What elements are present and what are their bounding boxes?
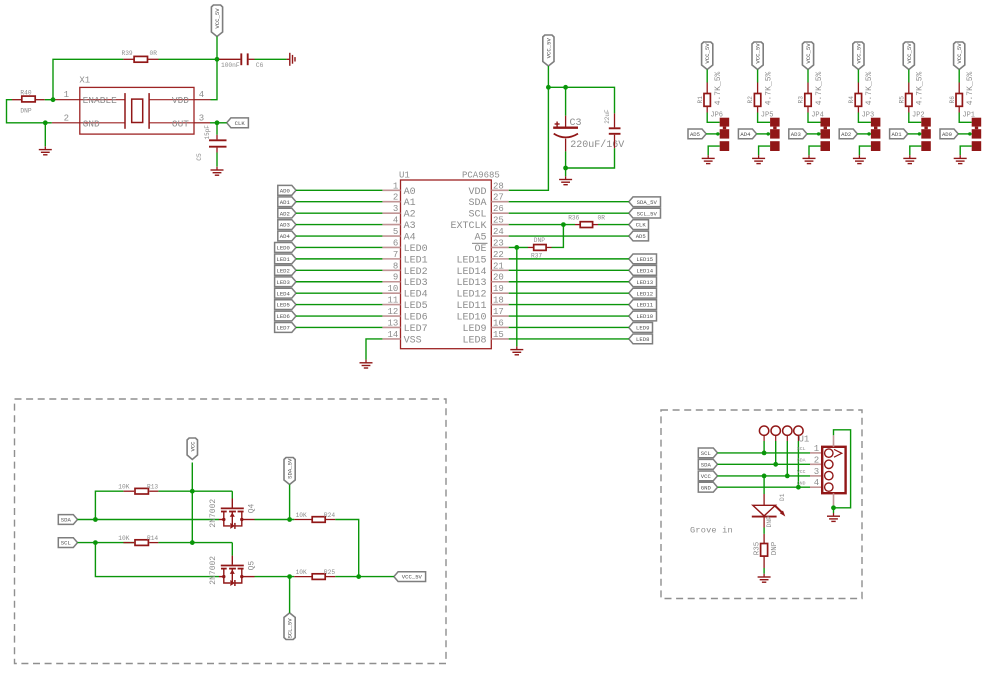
junction K VCC_5V	[356, 574, 361, 579]
wire U1 pin 15 to LED8	[509, 338, 629, 340]
ground (OE pulldown)	[516, 346, 518, 349]
svg-text:LED9: LED9	[462, 324, 486, 335]
wire GND to connector pin 4	[718, 486, 811, 488]
svg-text:R6: R6	[949, 96, 956, 104]
label flag AD1 (U1 left)	[278, 197, 296, 207]
junction (GND grove)	[796, 485, 801, 490]
connector U1 grove ring pad3	[783, 426, 792, 435]
pin 4 U1 (A3)	[382, 224, 400, 226]
svg-text:SCL_5V: SCL_5V	[637, 210, 658, 217]
svg-text:LED4: LED4	[276, 290, 290, 297]
label flag LED0 (U1 left)	[275, 243, 296, 253]
connector U1 grove ring pad4	[794, 426, 803, 435]
wire junction D to ground	[44, 123, 46, 147]
junction (grove shield gnd)	[831, 505, 836, 510]
wire AD3 to U1 pin 4	[296, 224, 382, 226]
svg-text:4: 4	[199, 90, 204, 100]
svg-text:LED2: LED2	[276, 267, 289, 274]
connector grove contact 2	[825, 460, 833, 468]
wire R6 to jumper JP1	[959, 113, 972, 123]
svg-text:A3: A3	[404, 221, 416, 232]
label flag SCL_5V (U1)	[629, 208, 661, 218]
label flag LED8 (U1 right)	[629, 334, 653, 344]
wire VCC_5V to R5	[908, 70, 910, 83]
junction B X1 enable	[51, 97, 56, 102]
resistor R25 10K	[294, 576, 312, 578]
svg-text:DNP: DNP	[766, 516, 773, 527]
junction A VCC_5V	[215, 57, 220, 62]
svg-text:LED12: LED12	[636, 290, 653, 297]
svg-text:C6: C6	[256, 62, 264, 69]
pin 4 grove connector	[810, 486, 822, 488]
label flag AD3 (U1 left)	[278, 220, 296, 230]
pin 15 U1 (LED8)	[491, 338, 508, 340]
wire R13 left down to SDA	[95, 491, 123, 519]
pin 1 X1	[52, 99, 80, 101]
label flag LED4 (U1 left)	[275, 288, 296, 298]
label flag AD5 (jumper)	[688, 129, 706, 139]
wire JP5 to ground	[759, 146, 771, 155]
svg-text:LED10: LED10	[456, 313, 486, 324]
pin 11 U1 (LED5)	[382, 304, 400, 306]
svg-text:R25: R25	[324, 569, 335, 576]
svg-text:U1: U1	[399, 171, 410, 181]
pin 6 U1 (LED0)	[382, 246, 400, 248]
label flag CLK (U1)	[629, 220, 649, 230]
pin 2 grove connector	[810, 463, 822, 465]
svg-text:R5: R5	[898, 96, 905, 104]
wire VCC_5V to R4	[857, 70, 859, 83]
svg-text:1: 1	[393, 181, 398, 191]
ground (right of C6)	[287, 58, 290, 60]
resistor R24 10K	[294, 519, 312, 521]
junction 3 (C3 bottom)	[563, 166, 568, 171]
connector U1 grove ring pad2	[771, 426, 780, 435]
junction (SDA grove)	[773, 462, 778, 467]
svg-text:R40: R40	[20, 90, 31, 97]
wire ring pad1 down	[763, 435, 765, 441]
wire U1 SCL to SCL_5V	[509, 212, 629, 214]
pin 17 U1 (LED10)	[491, 315, 508, 317]
wire AD3 to JP4	[807, 133, 821, 135]
svg-text:A0: A0	[404, 187, 416, 198]
svg-text:8: 8	[393, 261, 398, 271]
pin 26 U1 (SCL)	[491, 212, 508, 214]
label flag SCL	[58, 538, 77, 548]
svg-text:X1: X1	[79, 76, 90, 86]
svg-text:12: 12	[387, 307, 398, 317]
wire AD0 to U1 pin 1	[296, 189, 382, 191]
connector grove polarity mark	[834, 449, 842, 457]
ground (below R40)	[44, 146, 46, 149]
wire junction H to Q5 gate	[192, 542, 232, 544]
resistor R2 4.7K_5%	[757, 83, 759, 94]
svg-text:0R: 0R	[150, 50, 158, 57]
svg-text:VCC: VCC	[189, 441, 196, 452]
svg-text:LED8: LED8	[462, 335, 486, 346]
label flag LED2 (U1 left)	[275, 265, 296, 275]
ground (JP2)	[909, 155, 911, 158]
svg-text:28: 28	[493, 181, 504, 191]
svg-text:C5: C5	[196, 153, 203, 161]
pin 2 X1	[52, 122, 80, 124]
junction C CLK net	[215, 120, 220, 125]
svg-text:10K: 10K	[296, 569, 307, 576]
supply SCL_5V (shifter, pointing up)	[284, 613, 295, 640]
wire JP2 to ground	[910, 146, 922, 155]
svg-text:LED4: LED4	[404, 290, 428, 301]
svg-text:AD1: AD1	[280, 199, 291, 206]
junction G VCC	[190, 489, 195, 494]
svg-text:AD0: AD0	[280, 187, 291, 194]
svg-text:9: 9	[393, 273, 398, 283]
svg-text:R35: R35	[754, 541, 762, 555]
junction F OE	[514, 245, 519, 250]
svg-text:LED14: LED14	[456, 267, 486, 278]
wire ring pad4 down	[797, 435, 799, 441]
supply VCC_5V (oscillator)	[211, 5, 222, 37]
wire C3 to junction 3	[565, 151, 567, 168]
wire R25 to junction K	[335, 576, 358, 578]
junction 1 VCC_5V	[546, 85, 551, 90]
wire SCL to connector pin 1	[718, 452, 811, 454]
wire AD1 to JP2	[908, 133, 922, 135]
svg-text:LED13: LED13	[636, 279, 653, 286]
resistor R37 DNP	[517, 246, 528, 248]
svg-text:DNP: DNP	[771, 541, 779, 555]
svg-text:A1: A1	[404, 198, 416, 209]
pin mount grove (top)	[833, 435, 835, 447]
label flag AD0 (jumper)	[940, 129, 958, 139]
svg-text:VCC_5V: VCC_5V	[906, 43, 913, 64]
label flag LED1 (U1 left)	[275, 254, 296, 264]
svg-text:2N7002: 2N7002	[209, 556, 218, 585]
wire U1 OE to junction F	[509, 246, 517, 248]
wire VCC to connector pin 3	[718, 475, 811, 477]
ground (below C3)	[565, 176, 567, 179]
pin 23 U1 (OE)	[491, 246, 508, 248]
resistor R6 4.7K_5%	[958, 83, 960, 94]
svg-text:CLK: CLK	[235, 120, 246, 127]
label flag CLK (at X1)	[227, 118, 249, 128]
svg-text:C3: C3	[570, 118, 582, 129]
ground (below C5)	[216, 167, 218, 170]
wire AD4 to JP5	[757, 133, 771, 135]
wire shield to ground	[833, 508, 835, 513]
svg-text:R36: R36	[568, 215, 579, 222]
pin 16 U1 (LED9)	[491, 326, 508, 328]
wire SDA_5V down to junction J	[289, 485, 291, 520]
wire VCC trunk to junction H	[191, 491, 193, 542]
ground (U1 VSS)	[365, 360, 367, 363]
svg-text:VCC: VCC	[797, 469, 806, 475]
label flag LED13 (U1 right)	[629, 277, 657, 287]
transistor Q5 2N7002	[231, 543, 233, 556]
svg-text:PCA9685: PCA9685	[462, 171, 500, 181]
wire AD2 to U1 pin 3	[296, 212, 382, 214]
wire LED3 to U1 pin 9	[296, 281, 382, 283]
svg-text:LED15: LED15	[456, 255, 486, 266]
wire R4 to jumper JP3	[858, 113, 871, 123]
ground (JP5)	[758, 155, 760, 158]
transistor Q4 2N7002	[231, 491, 233, 498]
label flag LED5 (U1 left)	[275, 300, 296, 310]
connector grove contact 4	[825, 483, 833, 491]
svg-text:SDA: SDA	[468, 198, 486, 209]
wire junction D to X1 pin2	[45, 122, 52, 124]
wire VCC_5V to R2	[757, 70, 759, 83]
svg-text:AD4: AD4	[740, 131, 751, 138]
svg-text:A4: A4	[404, 233, 416, 244]
svg-text:AD1: AD1	[892, 131, 903, 138]
svg-text:AD0: AD0	[942, 131, 953, 138]
svg-text:D1: D1	[779, 493, 786, 501]
svg-text:R13: R13	[147, 484, 158, 491]
junction (SCL grove)	[762, 451, 767, 456]
svg-text:A2: A2	[404, 210, 416, 221]
svg-text:3: 3	[199, 113, 204, 123]
svg-text:SDA: SDA	[701, 461, 712, 468]
svg-text:CLK: CLK	[636, 222, 647, 229]
wire JP6 to ground	[708, 146, 720, 155]
svg-text:4.7K_5%: 4.7K_5%	[966, 72, 975, 106]
pin 3 X1	[194, 122, 210, 124]
wire junction2 down to C3	[565, 87, 567, 115]
wire R1 to jumper JP6	[707, 113, 720, 123]
svg-text:SCL: SCL	[797, 446, 806, 452]
wire VCC_5V trunk down to U1 VDD	[509, 87, 549, 190]
svg-text:R1: R1	[697, 96, 704, 104]
wire VCC_5V to R3	[807, 70, 809, 83]
svg-text:LED14: LED14	[636, 267, 653, 274]
wire R40 left around to GND row	[7, 100, 46, 123]
dashed frame (Grove in)	[661, 410, 862, 599]
svg-text:6: 6	[393, 238, 398, 248]
svg-text:4: 4	[393, 216, 398, 226]
wire R36 to CLK flag	[598, 224, 629, 226]
wire VCC_5V to R1	[706, 70, 708, 83]
wire VCC_5V to R6	[958, 70, 960, 83]
label flag LED6 (U1 left)	[275, 311, 296, 321]
label flag AD2 (jumper)	[839, 129, 857, 139]
pin 1 grove connector	[810, 452, 822, 454]
svg-text:SDA: SDA	[797, 458, 806, 464]
junction (AD5 at JP6)	[716, 132, 719, 135]
svg-text:1: 1	[64, 90, 69, 100]
svg-text:AD2: AD2	[841, 131, 851, 138]
resistor R40 DNP	[35, 99, 45, 101]
svg-text:10K: 10K	[296, 512, 307, 519]
wire JP4 to ground	[809, 146, 821, 155]
svg-text:ENABLE: ENABLE	[83, 95, 118, 106]
pin 27 U1 (SDA)	[491, 201, 508, 203]
wire R14 right to junction H	[158, 542, 192, 544]
svg-text:14: 14	[387, 330, 398, 340]
wire U1 pin 19 to LED12	[509, 292, 629, 294]
supply VCC (shifter)	[187, 438, 197, 460]
wire junction K to VCC_5V flag	[359, 576, 394, 578]
wire R35 to ground	[763, 568, 765, 574]
svg-text:VCC_5V: VCC_5V	[855, 43, 862, 64]
svg-text:GND: GND	[83, 118, 100, 129]
connector grove contact 1	[825, 449, 833, 457]
svg-text:GND: GND	[797, 480, 806, 486]
svg-text:10K: 10K	[118, 535, 129, 542]
label flag AD2 (U1 left)	[278, 208, 296, 218]
pin 8 U1 (LED2)	[382, 269, 400, 271]
svg-text:AD5: AD5	[690, 131, 700, 138]
svg-text:GND: GND	[701, 484, 712, 491]
junction (D1 tap on VCC row)	[762, 474, 767, 479]
wire junction 3 to ground	[565, 168, 567, 176]
wire U1 VSS to ground	[366, 339, 382, 360]
svg-text:VCC_5V: VCC_5V	[545, 38, 552, 59]
svg-text:22uF: 22uF	[604, 109, 611, 124]
junction (AD4 at JP5)	[767, 132, 770, 135]
pin 21 U1 (LED14)	[491, 269, 508, 271]
resistor R4 4.7K_5%	[857, 83, 859, 94]
capacitor C22u 22uF	[614, 113, 616, 127]
svg-text:VCC_5V: VCC_5V	[214, 8, 221, 29]
ground (JP6)	[707, 155, 709, 158]
ground (grove shield)	[833, 513, 835, 516]
pin 9 U1 (LED3)	[382, 281, 400, 283]
label flag AD1 (jumper)	[890, 129, 908, 139]
label flag SDA (grove)	[698, 459, 717, 469]
resistor R1 4.7K_5%	[706, 83, 708, 94]
svg-text:LED1: LED1	[276, 256, 290, 263]
label flag AD4 (jumper)	[738, 129, 756, 139]
svg-text:LED8: LED8	[636, 336, 649, 343]
pin 3 grove connector	[810, 475, 822, 477]
label flag LED9 (U1 right)	[629, 323, 653, 333]
capacitor C3 220uF/16V (polarized)	[565, 116, 567, 127]
svg-text:7: 7	[393, 250, 398, 260]
junction I SDA	[93, 517, 98, 522]
svg-text:15pF: 15pF	[204, 125, 211, 140]
svg-text:11: 11	[387, 296, 398, 306]
supply VCC_5V (R5)	[903, 42, 914, 70]
dashed frame (level shifter)	[15, 399, 447, 664]
supply VCC_5V (R2)	[752, 42, 763, 70]
wire LED0 to U1 pin 6	[296, 246, 382, 248]
svg-text:18: 18	[493, 296, 504, 306]
pin 25 U1 (EXTCLK)	[491, 224, 508, 226]
ground (JP4)	[808, 155, 810, 158]
wire X1 OUT to junction C	[210, 122, 217, 124]
wire SDA to Q4 source	[78, 519, 220, 521]
pin 20 U1 (LED13)	[491, 281, 508, 283]
wire U1 pin 16 to LED9	[509, 326, 629, 328]
svg-text:LED3: LED3	[404, 278, 428, 289]
svg-text:2: 2	[64, 113, 69, 123]
svg-text:LED12: LED12	[456, 290, 486, 301]
label flag LED7 (U1 left)	[275, 323, 296, 333]
svg-text:AD2: AD2	[280, 210, 290, 217]
wire SCL down to Q5 source	[95, 543, 219, 577]
label flag AD3 (jumper)	[789, 129, 807, 139]
svg-text:VCC_5V: VCC_5V	[956, 43, 963, 64]
svg-text:SDA: SDA	[61, 517, 72, 524]
label flag VCC (grove)	[698, 471, 717, 481]
wire VCC_5V down	[547, 66, 549, 87]
label flag GND (grove)	[698, 482, 717, 492]
label flag LED15 (U1 right)	[629, 254, 657, 264]
pin 19 U1 (LED12)	[491, 292, 508, 294]
diode D1 DNP	[763, 494, 765, 505]
junction J SDA_5V	[287, 517, 292, 522]
svg-text:VCC_5V: VCC_5V	[805, 43, 812, 64]
svg-text:3: 3	[393, 204, 398, 214]
wire LED6 to U1 pin 12	[296, 315, 382, 317]
label flag LED12 (U1 right)	[629, 288, 657, 298]
svg-text:VDD: VDD	[172, 95, 189, 106]
IC U1 PCA9685 body	[401, 180, 492, 349]
svg-text:LED11: LED11	[456, 301, 486, 312]
label flag SCL (grove)	[698, 448, 717, 458]
svg-text:10K: 10K	[118, 484, 129, 491]
svg-text:R24: R24	[324, 512, 335, 519]
junction (AD3 at JP4)	[817, 132, 820, 135]
svg-text:20: 20	[493, 273, 504, 283]
svg-text:LED6: LED6	[276, 313, 289, 320]
wire U1 pin 22 to LED15	[509, 258, 629, 260]
svg-text:R39: R39	[122, 50, 133, 57]
svg-text:2N7002: 2N7002	[209, 499, 218, 528]
svg-text:VCC_5V: VCC_5V	[755, 43, 762, 64]
wire LED4 to U1 pin 10	[296, 292, 382, 294]
wire U1 pin 18 to LED11	[509, 304, 629, 306]
svg-text:VDD: VDD	[468, 187, 486, 198]
svg-text:17: 17	[493, 307, 504, 317]
pin 10 U1 (LED4)	[382, 292, 400, 294]
resistor R5 4.7K_5%	[908, 83, 910, 94]
junction E EXTCLK	[561, 222, 566, 227]
svg-text:25: 25	[493, 216, 504, 226]
capacitor C6 100nF	[219, 58, 240, 60]
svg-text:SCL: SCL	[701, 450, 711, 457]
supply VCC_5V (C3)	[543, 35, 554, 66]
svg-text:OUT: OUT	[172, 118, 189, 129]
svg-text:SCL_5V: SCL_5V	[287, 618, 294, 639]
svg-text:LED13: LED13	[456, 278, 486, 289]
junction (VCC grove)	[785, 474, 790, 479]
wire SCL to junction L	[78, 542, 96, 544]
label flag AD0 (U1 left)	[278, 185, 296, 195]
junction (AD2 at JP3)	[867, 132, 870, 135]
svg-text:Q4: Q4	[248, 504, 257, 514]
wire R13 right to junction G	[158, 490, 192, 492]
svg-text:4.7K_5%: 4.7K_5%	[865, 72, 874, 106]
junction M SCL_5V	[287, 574, 292, 579]
wire ring pad3 down	[786, 435, 788, 441]
wire U1 SDA to SDA_5V	[509, 201, 629, 203]
wire AD4 to U1 pin 5	[296, 235, 382, 237]
pin 24 U1 (A5)	[491, 235, 508, 237]
wire R2 to jumper JP5	[758, 113, 771, 123]
wire X1 VDD to VCC junction	[211, 59, 218, 99]
svg-text:LED0: LED0	[276, 245, 290, 252]
connector U1 grove ring pad1	[759, 426, 768, 435]
junction (AD1 at JP2)	[918, 132, 921, 135]
resistor R39	[148, 58, 158, 60]
wire LED2 to U1 pin 8	[296, 269, 382, 271]
svg-text:DNP: DNP	[20, 107, 31, 114]
wire R5 to jumper JP2	[909, 113, 922, 123]
wire U1 pin 21 to LED14	[509, 269, 629, 271]
svg-text:SDA_5V: SDA_5V	[287, 458, 294, 479]
svg-text:AD4: AD4	[280, 233, 291, 240]
